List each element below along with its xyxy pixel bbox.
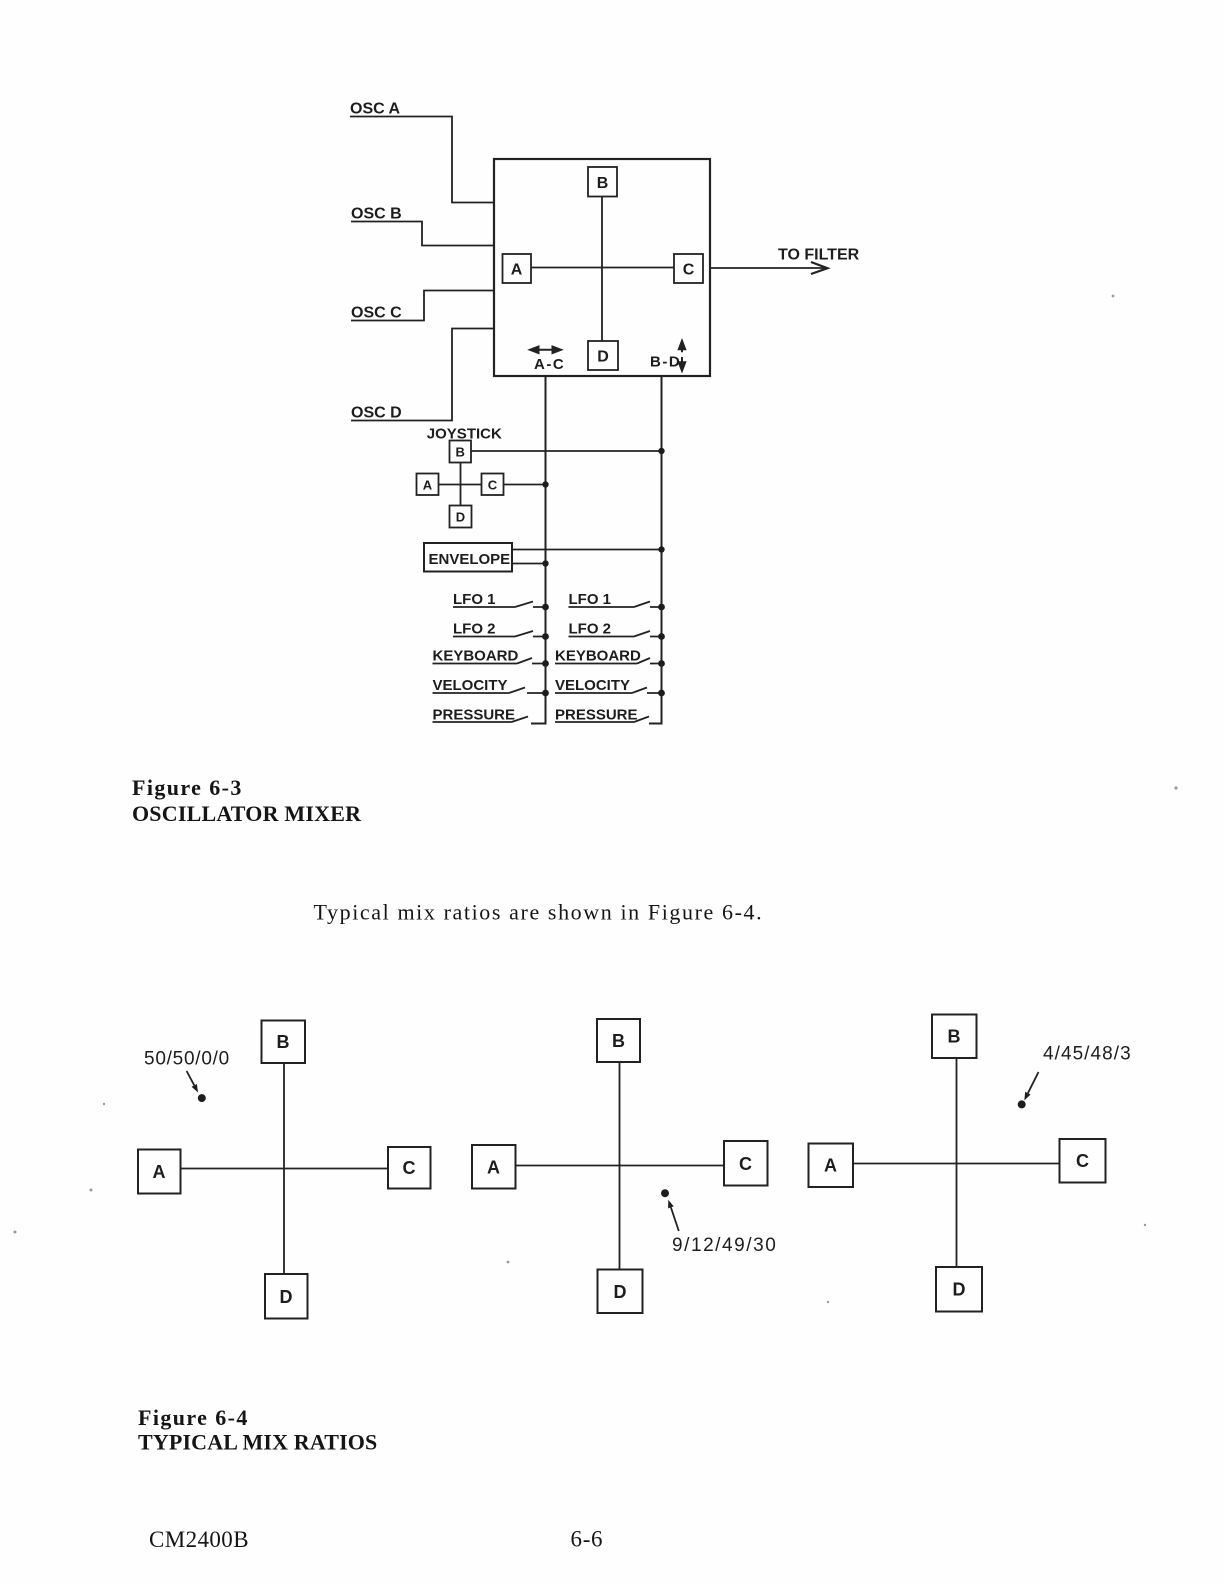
- svg-text:OSC D: OSC D: [351, 405, 402, 422]
- svg-text:PRESSURE: PRESSURE: [433, 707, 516, 724]
- svg-text:OSC A: OSC A: [350, 101, 401, 118]
- svg-text:C: C: [1076, 1151, 1089, 1171]
- svg-text:OSCILLATOR MIXER: OSCILLATOR MIXER: [132, 801, 362, 826]
- svg-text:ENVELOPE: ENVELOPE: [429, 551, 511, 568]
- svg-text:VELOCITY: VELOCITY: [433, 677, 508, 694]
- svg-text:A: A: [824, 1156, 837, 1176]
- svg-text:D: D: [597, 349, 609, 366]
- svg-text:PRESSURE: PRESSURE: [555, 707, 638, 724]
- svg-text:KEYBOARD: KEYBOARD: [555, 648, 641, 665]
- svg-text:A-C: A-C: [534, 356, 565, 373]
- svg-text:9/12/49/30: 9/12/49/30: [672, 1235, 777, 1256]
- svg-text:A: A: [487, 1158, 500, 1178]
- svg-text:B: B: [597, 175, 609, 192]
- svg-text:Figure 6-4: Figure 6-4: [138, 1405, 249, 1430]
- svg-text:LFO 2: LFO 2: [453, 621, 496, 638]
- svg-text:B: B: [456, 445, 465, 460]
- svg-text:VELOCITY: VELOCITY: [555, 677, 630, 694]
- svg-text:C: C: [683, 262, 695, 279]
- svg-text:TYPICAL MIX RATIOS: TYPICAL MIX RATIOS: [138, 1430, 377, 1455]
- svg-text:D: D: [953, 1280, 966, 1300]
- svg-text:50/50/0/0: 50/50/0/0: [144, 1049, 230, 1070]
- svg-text:TO FILTER: TO FILTER: [778, 247, 860, 264]
- svg-text:LFO 1: LFO 1: [453, 591, 496, 608]
- svg-text:C: C: [488, 478, 498, 493]
- svg-text:C: C: [739, 1154, 752, 1174]
- svg-text:D: D: [614, 1282, 627, 1302]
- svg-text:OSC B: OSC B: [351, 206, 402, 223]
- svg-text:OSC C: OSC C: [351, 305, 402, 322]
- svg-text:A: A: [511, 262, 523, 279]
- svg-text:4/45/48/3: 4/45/48/3: [1043, 1044, 1132, 1065]
- svg-text:Typical mix ratios are shown i: Typical mix ratios are shown in Figure 6…: [314, 900, 764, 925]
- svg-text:6-6: 6-6: [571, 1527, 604, 1552]
- svg-text:C: C: [403, 1158, 416, 1178]
- svg-text:A: A: [423, 478, 433, 493]
- svg-text:D: D: [456, 510, 465, 525]
- svg-text:LFO 1: LFO 1: [569, 591, 612, 608]
- svg-text:B-D: B-D: [650, 354, 681, 371]
- svg-text:Figure 6-3: Figure 6-3: [132, 775, 243, 800]
- svg-text:LFO 2: LFO 2: [569, 621, 612, 638]
- svg-text:B: B: [277, 1032, 290, 1052]
- svg-text:A: A: [153, 1162, 166, 1182]
- svg-text:B: B: [948, 1027, 961, 1047]
- svg-text:CM2400B: CM2400B: [149, 1527, 249, 1552]
- svg-text:B: B: [612, 1031, 625, 1051]
- svg-text:JOYSTICK: JOYSTICK: [427, 425, 502, 442]
- svg-text:KEYBOARD: KEYBOARD: [433, 648, 519, 665]
- svg-text:D: D: [280, 1287, 293, 1307]
